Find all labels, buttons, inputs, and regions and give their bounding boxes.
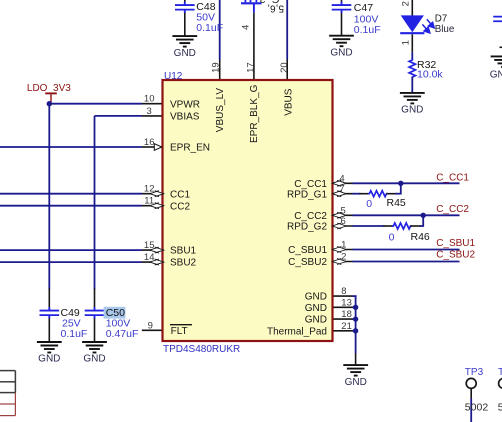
svg-text:RPD_G1: RPD_G1 bbox=[287, 189, 327, 200]
svg-text:VBUS: VBUS bbox=[284, 88, 295, 116]
svg-text:C_SBU2: C_SBU2 bbox=[436, 250, 475, 261]
svg-text:FLT: FLT bbox=[171, 326, 188, 337]
svg-text:R46: R46 bbox=[411, 231, 430, 243]
svg-text:21: 21 bbox=[341, 321, 352, 332]
svg-text:GND: GND bbox=[490, 69, 502, 80]
svg-text:C_CC1: C_CC1 bbox=[436, 172, 469, 183]
svg-text:GND: GND bbox=[305, 303, 327, 314]
svg-text:LDO_3V3: LDO_3V3 bbox=[27, 83, 71, 94]
svg-text:C_CC2: C_CC2 bbox=[294, 211, 327, 222]
svg-text:RPD_G2: RPD_G2 bbox=[287, 222, 327, 233]
svg-text:0: 0 bbox=[366, 198, 372, 210]
svg-text:VPWR: VPWR bbox=[170, 99, 200, 110]
svg-text:EPR_BLK_G: EPR_BLK_G bbox=[249, 84, 260, 143]
svg-text:1: 1 bbox=[400, 40, 411, 45]
svg-text:C_SBU1: C_SBU1 bbox=[436, 238, 475, 249]
svg-text:5: 5 bbox=[341, 205, 346, 216]
svg-text:SBU1: SBU1 bbox=[170, 246, 197, 257]
svg-text:0.47uF: 0.47uF bbox=[106, 328, 139, 340]
svg-text:14: 14 bbox=[144, 252, 155, 263]
svg-text:VBIAS: VBIAS bbox=[170, 112, 200, 123]
svg-text:1: 1 bbox=[341, 240, 346, 251]
svg-text:13: 13 bbox=[341, 297, 352, 308]
svg-text:7: 7 bbox=[339, 184, 344, 195]
svg-text:GND: GND bbox=[83, 354, 105, 365]
svg-text:2: 2 bbox=[341, 252, 346, 263]
svg-text:3: 3 bbox=[147, 106, 152, 117]
svg-text:GND: GND bbox=[38, 354, 60, 365]
svg-text:GND: GND bbox=[345, 377, 367, 388]
svg-text:GND: GND bbox=[330, 47, 352, 58]
svg-text:12: 12 bbox=[144, 184, 155, 195]
svg-text:2: 2 bbox=[400, 1, 411, 6]
svg-text:C47: C47 bbox=[354, 2, 373, 14]
svg-text:5002: 5002 bbox=[465, 401, 489, 413]
svg-text:4: 4 bbox=[339, 173, 344, 184]
svg-text:C_CC2: C_CC2 bbox=[436, 204, 469, 215]
svg-text:TPD4S480RUKR: TPD4S480RUKR bbox=[163, 344, 240, 355]
svg-text:11: 11 bbox=[144, 196, 154, 207]
svg-text:SBU2: SBU2 bbox=[170, 258, 197, 269]
svg-text:9: 9 bbox=[148, 320, 153, 331]
svg-text:CC2: CC2 bbox=[170, 201, 190, 212]
svg-text:16: 16 bbox=[144, 137, 155, 148]
svg-text:G_2: G_2 bbox=[259, 0, 279, 5]
svg-text:GND: GND bbox=[401, 105, 423, 116]
svg-text:0.1uF: 0.1uF bbox=[61, 328, 88, 340]
svg-text:EPR_EN: EPR_EN bbox=[170, 143, 210, 154]
svg-text:TP3: TP3 bbox=[465, 367, 484, 378]
svg-text:10: 10 bbox=[144, 94, 155, 105]
svg-text:0: 0 bbox=[389, 232, 395, 244]
svg-text:10.0k: 10.0k bbox=[417, 68, 443, 80]
svg-text:C_SBU1: C_SBU1 bbox=[288, 245, 327, 256]
svg-text:4: 4 bbox=[241, 25, 252, 30]
svg-text:U12: U12 bbox=[164, 71, 183, 82]
svg-text:8: 8 bbox=[341, 286, 346, 297]
svg-text:20: 20 bbox=[279, 62, 290, 73]
svg-text:TP4: TP4 bbox=[498, 367, 502, 378]
svg-text:0.1uF: 0.1uF bbox=[354, 24, 381, 36]
svg-text:R45: R45 bbox=[387, 197, 406, 209]
svg-text:GND: GND bbox=[305, 315, 327, 326]
svg-text:19: 19 bbox=[211, 62, 222, 73]
svg-text:C_CC1: C_CC1 bbox=[294, 179, 327, 190]
svg-text:0.1uF: 0.1uF bbox=[196, 22, 223, 34]
svg-text:5002: 5002 bbox=[498, 401, 502, 413]
svg-text:CC1: CC1 bbox=[170, 189, 190, 200]
svg-text:C_SBU2: C_SBU2 bbox=[288, 257, 327, 268]
svg-text:18: 18 bbox=[341, 309, 352, 320]
svg-text:15: 15 bbox=[144, 240, 155, 251]
svg-text:6: 6 bbox=[341, 216, 346, 227]
svg-text:GND: GND bbox=[174, 48, 196, 59]
svg-text:17: 17 bbox=[245, 62, 256, 73]
svg-text:GND: GND bbox=[305, 292, 327, 303]
svg-text:Thermal_Pad: Thermal_Pad bbox=[267, 326, 327, 337]
svg-text:Blue: Blue bbox=[435, 24, 455, 35]
svg-text:VBUS_LV: VBUS_LV bbox=[215, 88, 226, 133]
